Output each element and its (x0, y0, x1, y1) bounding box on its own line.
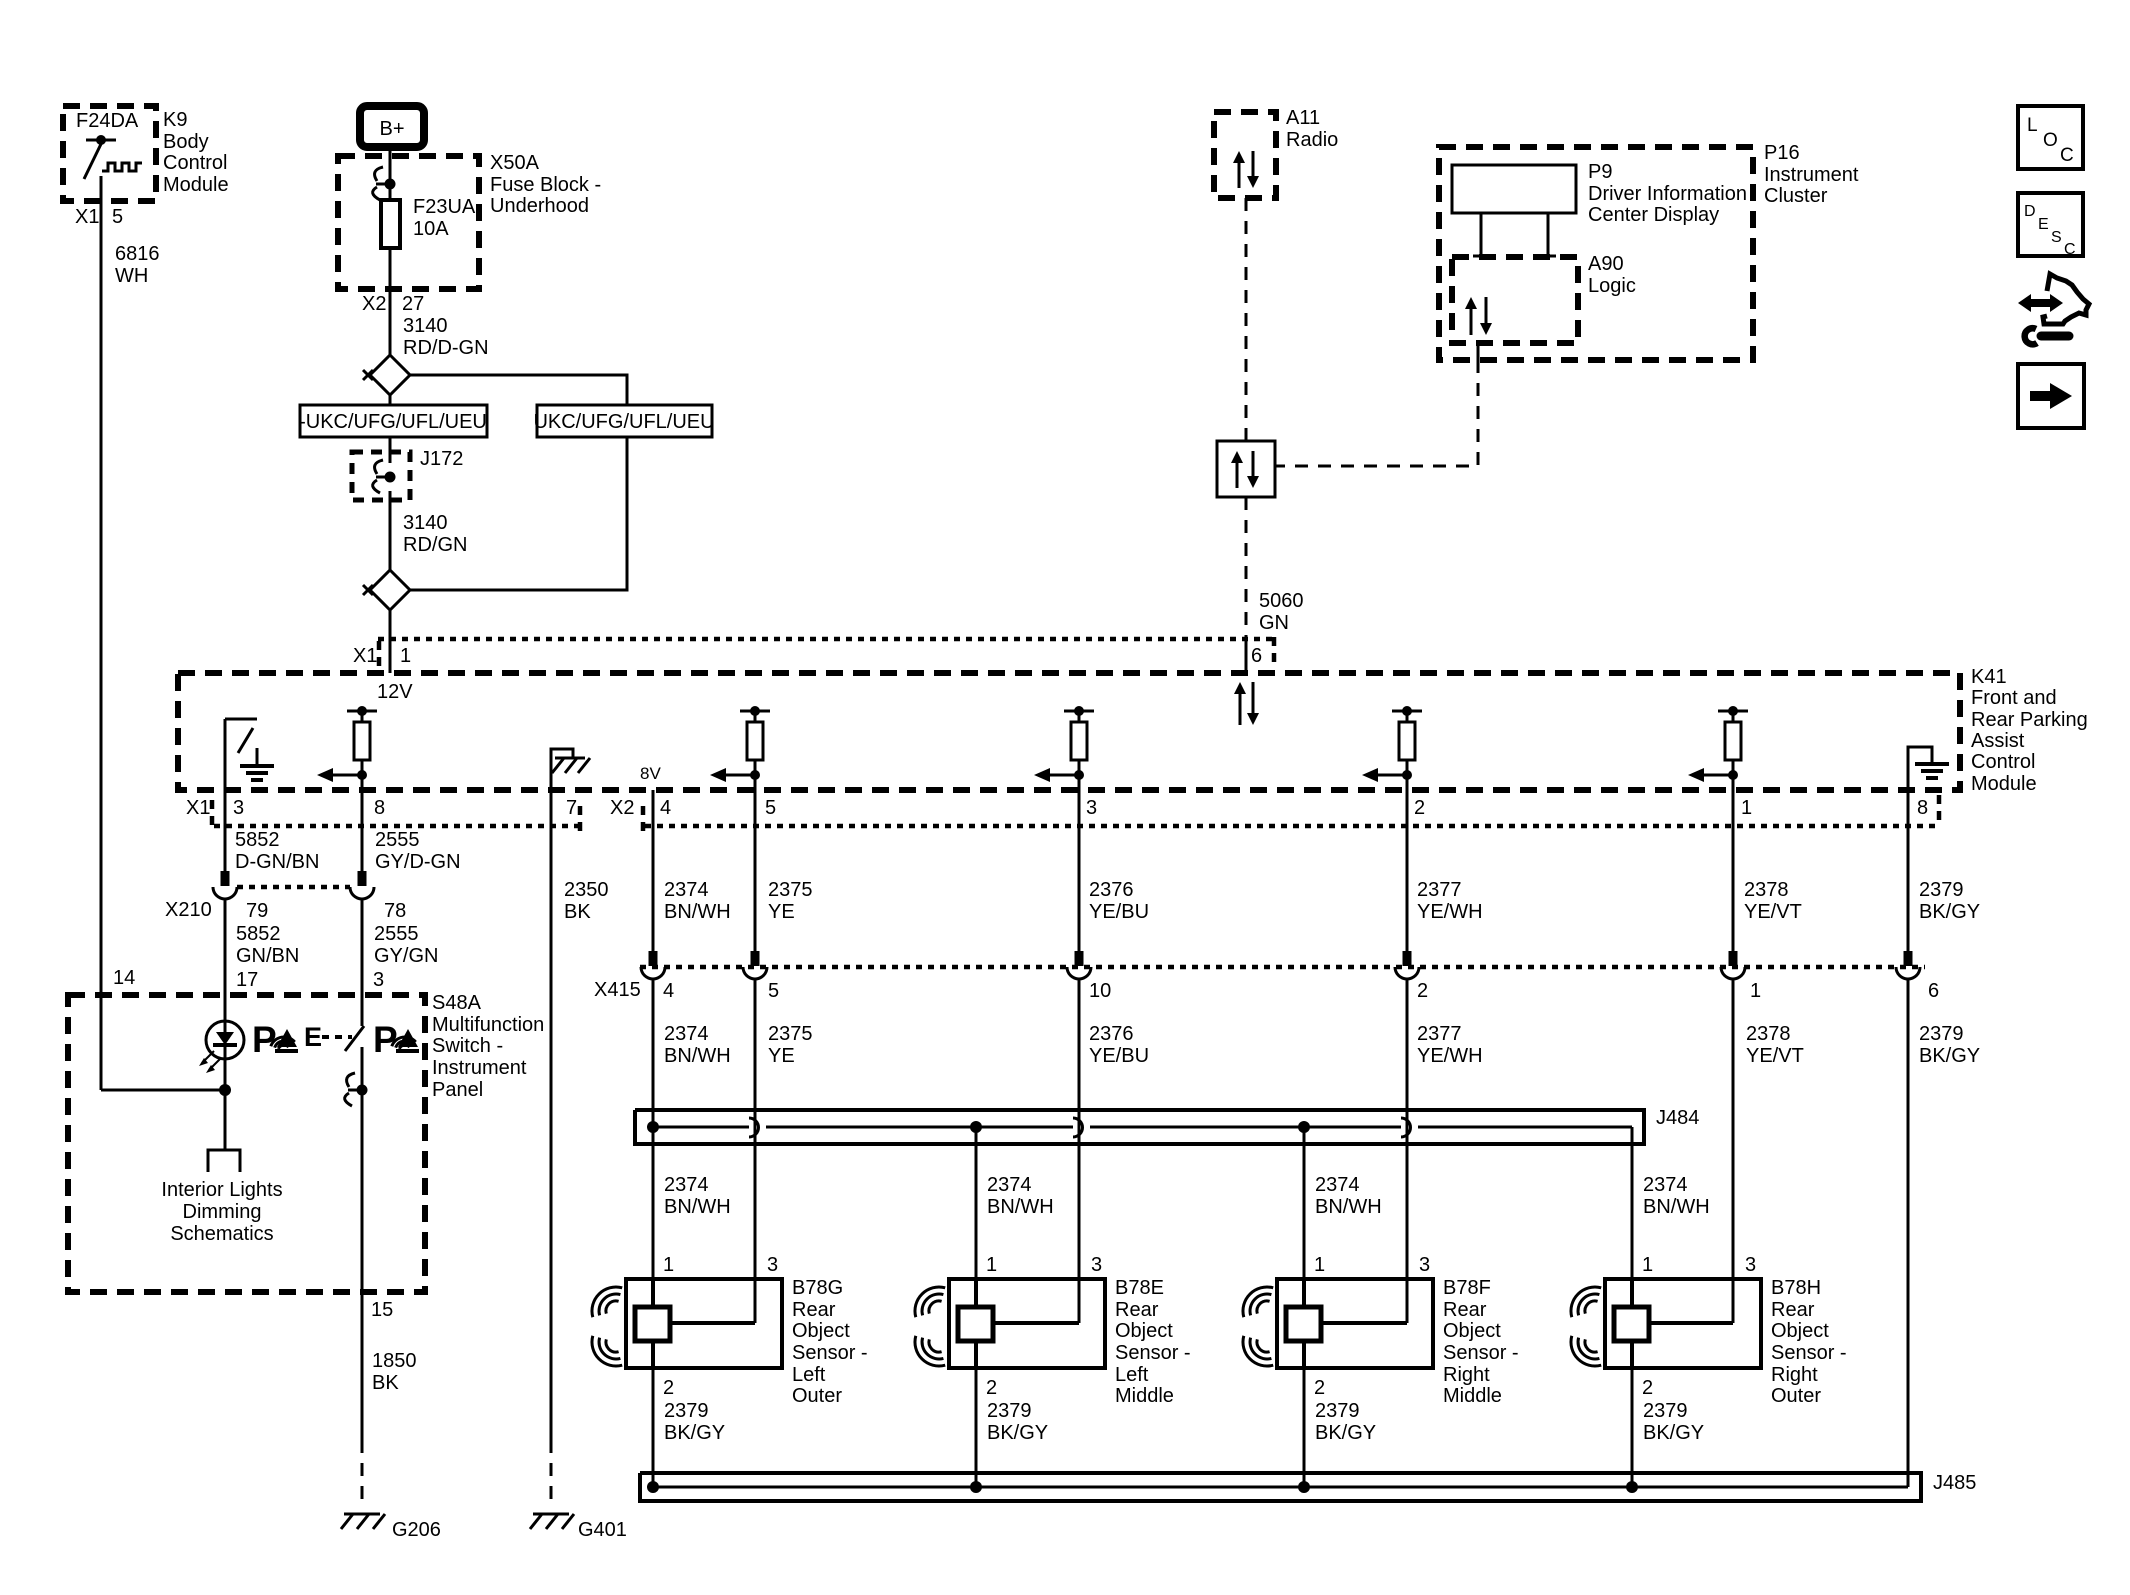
svg-text:6: 6 (1928, 980, 1939, 1002)
relay module K9 Body Control Module (dashed box) (63, 106, 156, 201)
wire J484 right end to B78H pin 1 (1631, 1127, 1634, 1279)
icon LOC button (2018, 106, 2083, 169)
connector X210 pin 78 (350, 871, 406, 922)
svg-text:15: 15 (371, 1299, 393, 1321)
connector X2 of K41 (bottom row) (610, 795, 1939, 832)
svg-text:Center Display: Center Display (1588, 204, 1719, 226)
svg-text:2378: 2378 (1744, 879, 1789, 901)
svg-text:Schematics: Schematics (170, 1223, 273, 1245)
svg-text:X210: X210 (165, 899, 212, 921)
svg-text:Right: Right (1771, 1364, 1818, 1386)
svg-text:5852: 5852 (236, 923, 281, 945)
resistor with tap inside K41 above pin X2-5 (710, 706, 770, 790)
svg-text:X2: X2 (362, 293, 386, 315)
svg-text:B78G: B78G (792, 1277, 843, 1299)
wire label 2374 BN/WH at B78F (1315, 1174, 1382, 1218)
wire 2376 YE/BU X415-10 to B78E pin 3 (1079, 979, 1149, 1323)
svg-text:Object: Object (1115, 1320, 1173, 1342)
LED emission arrows (199, 1051, 221, 1073)
wire 2375 YE from K41 X2-5 to X415-5 (755, 790, 813, 951)
svg-text:X50A: X50A (490, 152, 540, 174)
icon wrench (2025, 328, 2069, 344)
wire 5852 GN/BN X210-79 to S48A pin 17 (225, 899, 299, 1022)
connector X415 pin 2 (1395, 951, 1428, 1002)
splice diamond S2 (363, 570, 410, 610)
svg-text:YE/WH: YE/WH (1417, 901, 1483, 923)
wire 2555 GY/GN X210-78 to S48A pin 3 (362, 899, 438, 1026)
svg-text:B78H: B78H (1771, 1277, 1821, 1299)
svg-text:Instrument: Instrument (1764, 164, 1859, 186)
svg-text:Object: Object (1771, 1320, 1829, 1342)
svg-text:P: P (373, 1019, 398, 1060)
svg-text:2376: 2376 (1089, 1023, 1134, 1045)
wire 2374 BN/WH from K41 X2-4 to X415-4 (653, 790, 731, 951)
svg-text:X1: X1 (353, 645, 377, 667)
svg-text:2: 2 (663, 1377, 674, 1399)
clip connector below switch (345, 1047, 368, 1292)
svg-text:A90: A90 (1588, 253, 1624, 275)
svg-text:1: 1 (986, 1254, 997, 1276)
svg-text:12V: 12V (377, 681, 413, 703)
svg-text:2379: 2379 (1643, 1400, 1688, 1422)
svg-text:YE/WH: YE/WH (1417, 1045, 1483, 1067)
svg-text:2374: 2374 (664, 1174, 709, 1196)
svg-text:5: 5 (765, 797, 776, 819)
wire 6816 WH from K9 X1-5 down to S48A junction (101, 176, 160, 1090)
svg-text:D-GN/BN: D-GN/BN (235, 851, 319, 873)
svg-text:2: 2 (1314, 1377, 1325, 1399)
ground G401 (530, 1514, 627, 1541)
svg-text:Interior Lights: Interior Lights (161, 1179, 282, 1201)
svg-text:C: C (2064, 241, 2076, 258)
svg-text:1: 1 (400, 645, 411, 667)
wire 2374 BN/WH X415-4 to J484 (653, 979, 731, 1127)
clip connector inside X50A (373, 167, 396, 200)
svg-text:2377: 2377 (1417, 1023, 1462, 1045)
svg-text:E: E (2038, 216, 2049, 233)
svg-text:Left: Left (792, 1364, 826, 1386)
fuse block X50A (dashed box) (338, 152, 601, 289)
wire 2350 BK from K41 X1-7 toward G401 (551, 790, 609, 1440)
junction J484 to sensor feed 1 (647, 1121, 659, 1133)
svg-text:F24DA: F24DA (76, 110, 139, 132)
wire 2379 BK/GY B78G pin 2 to J485 (653, 1368, 725, 1487)
option box -UKC/UFG/UFL/UEU (299, 405, 487, 437)
wire 2374 BN/WH J484 to B78G pin 1 (652, 1127, 655, 1279)
switch actuator label E with dashed link (304, 1022, 352, 1052)
svg-text:GN: GN (1259, 612, 1289, 634)
svg-text:Sensor -: Sensor - (1771, 1342, 1847, 1364)
svg-text:2: 2 (1642, 1377, 1653, 1399)
svg-text:10A: 10A (413, 218, 449, 240)
svg-text:27: 27 (402, 293, 424, 315)
wire 2375 YE X415-5 to B78G pin 3 (755, 979, 813, 1323)
resistor with tap inside K41 above pin X2-1 (1688, 706, 1748, 790)
connector X210 pin 79 (213, 871, 268, 922)
svg-text:6816: 6816 (115, 243, 160, 265)
svg-text:8: 8 (374, 797, 385, 819)
svg-text:Rear: Rear (1771, 1299, 1815, 1321)
svg-text:YE/BU: YE/BU (1089, 1045, 1149, 1067)
svg-text:YE/VT: YE/VT (1746, 1045, 1804, 1067)
svg-text:2379: 2379 (1919, 879, 1964, 901)
svg-text:Rear: Rear (1115, 1299, 1159, 1321)
icon car data double arrow (2018, 294, 2063, 312)
connector X1 of K41 (top, dotted row) (378, 637, 1274, 642)
connector X415 pin 5 (743, 951, 779, 1002)
svg-text:Underhood: Underhood (490, 195, 589, 217)
svg-text:2374: 2374 (1643, 1174, 1688, 1196)
svg-text:BK/GY: BK/GY (987, 1422, 1048, 1444)
svg-text:X415: X415 (594, 979, 641, 1001)
sound waves of B78F (1243, 1287, 1273, 1366)
switch to ground inside K41 (illumination driver) (225, 719, 274, 790)
wire 5060 GN serial data to K41 X1-6 (dashed) (1246, 497, 1304, 673)
connector X415 row (594, 967, 1925, 1001)
svg-text:BK/GY: BK/GY (1919, 1045, 1980, 1067)
bus J485 middle conductor (653, 1486, 1908, 1489)
connector X415 pin 4 (641, 951, 674, 1002)
svg-text:5852: 5852 (235, 829, 280, 851)
ultrasonic sensor B78F Rear Object Sensor (1277, 1277, 1519, 1407)
svg-text:X1: X1 (186, 797, 210, 819)
svg-text:D: D (2024, 203, 2036, 220)
svg-text:Control: Control (163, 152, 227, 174)
wire label 2374 BN/WH at B78H (1643, 1174, 1710, 1218)
svg-text:YE/BU: YE/BU (1089, 901, 1149, 923)
connector X415 pin 1 (1721, 951, 1761, 1002)
svg-text:14: 14 (113, 967, 135, 989)
svg-text:2378: 2378 (1746, 1023, 1791, 1045)
wire UKC box right branch down (410, 437, 627, 590)
svg-text:8: 8 (1917, 797, 1928, 819)
junction J485 at B78E (970, 1481, 982, 1493)
svg-text:1850: 1850 (372, 1350, 417, 1372)
svg-text:Object: Object (1443, 1320, 1501, 1342)
svg-text:Sensor -: Sensor - (792, 1342, 868, 1364)
pin 6 of K41 X1 (1251, 637, 1274, 667)
wire 2376 YE/BU from K41 X2-3 to X415-10 (1079, 790, 1149, 951)
svg-text:Right: Right (1443, 1364, 1490, 1386)
wire 3140 RD/GN J172 to splice S2 (390, 491, 467, 570)
svg-text:G401: G401 (578, 1519, 627, 1541)
wire 2555 GY/D-GN from K41 X1-8 to X210-78 (362, 790, 461, 873)
svg-text:5: 5 (768, 980, 779, 1002)
wire branch right from splice to UKC option (410, 375, 627, 405)
svg-text:2350: 2350 (564, 879, 609, 901)
svg-text:Multifunction: Multifunction (432, 1014, 544, 1036)
wire 2378 YE/VT X415-1 to B78H pin 3 (1733, 979, 1804, 1323)
junction of 6816 WH with LED branch (101, 1084, 231, 1096)
sound waves of B78G (592, 1287, 622, 1366)
wire 2379 BK/GY B78F pin 2 to J485 (1304, 1368, 1376, 1487)
svg-text:2379: 2379 (1315, 1400, 1360, 1422)
svg-text:10: 10 (1089, 980, 1111, 1002)
twisted pair bus J484 (635, 1107, 1699, 1144)
wire 2374 BN/WH J484 to B78F pin 1 (1303, 1127, 1306, 1279)
svg-text:5060: 5060 (1259, 590, 1304, 612)
svg-text:7: 7 (566, 797, 577, 819)
svg-text:Body: Body (163, 131, 209, 153)
wire B+ to fuse (389, 149, 392, 200)
resistor with tap inside K41 above pin X1-8 (317, 706, 377, 790)
svg-text:3: 3 (373, 969, 384, 991)
svg-text:2555: 2555 (374, 923, 419, 945)
connector X210 row (165, 887, 350, 921)
junction J485 at B78G (647, 1481, 659, 1493)
svg-text:B78E: B78E (1115, 1277, 1164, 1299)
svg-text:P9: P9 (1588, 161, 1612, 183)
off-page bracket to Interior Lights Dimming Schematics (161, 1150, 282, 1245)
twisted pair bus J485 (640, 1472, 1976, 1501)
svg-text:3: 3 (233, 797, 244, 819)
module K41 Front and Rear Parking Assist Control Module (dashed box) (178, 666, 2088, 795)
ground hook inside K41 at X1-7 (551, 749, 590, 790)
svg-text:J484: J484 (1656, 1107, 1699, 1129)
svg-text:BK/GY: BK/GY (1315, 1422, 1376, 1444)
serial data arrows inside A11 (1233, 151, 1259, 188)
display P9 Driver Information Center Display (1452, 161, 1747, 226)
ground G206 (341, 1514, 441, 1541)
pin X2 27 of X50A (362, 293, 424, 315)
pin X1 5 of K9 (75, 206, 123, 228)
svg-text:2375: 2375 (768, 1023, 813, 1045)
svg-text:RD/GN: RD/GN (403, 534, 467, 556)
svg-text:79: 79 (246, 900, 268, 922)
svg-text:BN/WH: BN/WH (1643, 1196, 1710, 1218)
svg-text:2374: 2374 (1315, 1174, 1360, 1196)
svg-text:BN/WH: BN/WH (987, 1196, 1054, 1218)
svg-text:Rear: Rear (1443, 1299, 1487, 1321)
wire P9 to A90 right (1540, 213, 1556, 257)
svg-text:GN/BN: GN/BN (236, 945, 299, 967)
svg-text:BK/GY: BK/GY (664, 1422, 725, 1444)
svg-text:BK/GY: BK/GY (1643, 1422, 1704, 1444)
svg-text:3: 3 (767, 1254, 778, 1276)
svg-text:Control: Control (1971, 751, 2035, 773)
wire 2378 YE/VT from K41 X2-1 to X415-1 (1733, 790, 1802, 951)
wire serial data A11 to splice box (dashed) (1245, 198, 1248, 441)
svg-text:UKC/UFG/UFL/UEU: UKC/UFG/UFL/UEU (533, 411, 714, 433)
junction J485 at B78F (1298, 1481, 1310, 1493)
svg-text:BN/WH: BN/WH (664, 1196, 731, 1218)
svg-text:1: 1 (1750, 980, 1761, 1002)
wire 2379 BK/GY B78H pin 2 to J485 (1632, 1368, 1704, 1487)
svg-text:5: 5 (112, 206, 123, 228)
ultrasonic sensor B78H Rear Object Sensor (1605, 1277, 1847, 1407)
svg-text:Logic: Logic (1588, 275, 1636, 297)
svg-text:B+: B+ (379, 118, 404, 140)
svg-text:1: 1 (1642, 1254, 1653, 1276)
svg-text:GY/GN: GY/GN (374, 945, 438, 967)
svg-text:17: 17 (236, 969, 258, 991)
wire P9 to A90 left (1473, 213, 1489, 257)
power symbol B+ (360, 106, 424, 147)
junction J485 at B78H (1626, 1481, 1638, 1493)
svg-text:Front and: Front and (1971, 687, 2057, 709)
wire 2377 YE/WH X415-2 to B78F pin 3 (1407, 979, 1483, 1323)
svg-text:Middle: Middle (1115, 1385, 1174, 1407)
resistor with tap inside K41 above pin X2-2 (1362, 706, 1422, 790)
wire LED to junction (224, 1059, 227, 1150)
svg-text:Sensor -: Sensor - (1443, 1342, 1519, 1364)
svg-text:2: 2 (986, 1377, 997, 1399)
svg-text:78: 78 (384, 900, 406, 922)
svg-text:WH: WH (115, 265, 148, 287)
switch module S48A Multifunction Switch - Instrument Panel (dashed box) (68, 992, 544, 1292)
svg-text:2374: 2374 (664, 1023, 709, 1045)
svg-text:G206: G206 (392, 1519, 441, 1541)
sound waves of B78E (915, 1287, 945, 1366)
svg-text:S: S (2051, 229, 2062, 246)
svg-text:Cluster: Cluster (1764, 185, 1828, 207)
wire 5852 D-GN/BN from K41 X1-3 to X210-79 (225, 790, 319, 873)
svg-text:X2: X2 (610, 797, 634, 819)
wire serial data A90 down and left (dashed) (1275, 343, 1478, 466)
svg-text:3: 3 (1086, 797, 1097, 819)
connector X1 of K41 (bottom row) (186, 797, 580, 832)
svg-text:YE/VT: YE/VT (1744, 901, 1802, 923)
ultrasonic sensor B78E Rear Object Sensor (949, 1277, 1191, 1407)
svg-text:RD/D-GN: RD/D-GN (403, 337, 489, 359)
wire 2379 BK/GY X415-6 to J485 (1908, 979, 1980, 1487)
module A11 Radio (dashed box) (1214, 107, 1338, 198)
svg-text:BN/WH: BN/WH (1315, 1196, 1382, 1218)
svg-text:K9: K9 (163, 109, 187, 131)
connector J172 (dashed box with clip) (352, 448, 463, 500)
icon next-page arrow button (2018, 364, 2084, 428)
svg-text:BK/GY: BK/GY (1919, 901, 1980, 923)
svg-text:2379: 2379 (987, 1400, 1032, 1422)
svg-text:4: 4 (660, 797, 671, 819)
junction J484 to sensor feed 2 (970, 1121, 982, 1133)
connector X415 pin 10 (1067, 951, 1111, 1002)
svg-text:BK: BK (564, 901, 591, 923)
svg-text:-UKC/UFG/UFL/UEU: -UKC/UFG/UFL/UEU (299, 411, 487, 433)
svg-text:O: O (2043, 130, 2058, 151)
sound waves of B78H (1571, 1287, 1601, 1366)
svg-text:1: 1 (1741, 797, 1752, 819)
svg-text:2379: 2379 (664, 1400, 709, 1422)
wire fuse output through X50A bottom (389, 248, 392, 355)
wire 2379 BK/GY B78E pin 2 to J485 (976, 1368, 1048, 1487)
svg-text:Left: Left (1115, 1364, 1149, 1386)
svg-text:1: 1 (1314, 1254, 1325, 1276)
svg-text:BK: BK (372, 1372, 399, 1394)
svg-text:Module: Module (1971, 773, 2037, 795)
svg-text:Dimming: Dimming (183, 1201, 262, 1223)
resistor with tap inside K41 above pin X2-3 (1034, 706, 1094, 790)
svg-text:BN/WH: BN/WH (664, 1045, 731, 1067)
svg-text:YE: YE (768, 901, 795, 923)
svg-text:Fuse Block -: Fuse Block - (490, 174, 601, 196)
svg-text:3140: 3140 (403, 315, 448, 337)
wire 1850 BK S48A-15 to G206 (362, 1292, 417, 1508)
svg-text:3: 3 (1745, 1254, 1756, 1276)
svg-text:2: 2 (1414, 797, 1425, 819)
wire 2350 BK dashed tail to G401 (550, 1440, 553, 1508)
svg-text:Module: Module (163, 174, 229, 196)
svg-text:GY/D-GN: GY/D-GN (375, 851, 461, 873)
wire label 2374 BN/WH at B78G (664, 1174, 731, 1218)
svg-text:J485: J485 (1933, 1472, 1976, 1494)
svg-text:Instrument: Instrument (432, 1057, 527, 1079)
wire 12V feed into K41 X1-1 (389, 610, 392, 673)
park assist icon right (373, 1019, 419, 1060)
serial data arrows inside A90 (1465, 297, 1492, 335)
svg-text:E: E (304, 1022, 322, 1052)
park assist icon left (P with waves and obstacle) (252, 1019, 298, 1060)
svg-text:Switch -: Switch - (432, 1035, 503, 1057)
label K9 designator text (163, 109, 229, 196)
svg-text:Radio: Radio (1286, 129, 1338, 151)
svg-text:J172: J172 (420, 448, 463, 470)
svg-text:6: 6 (1251, 645, 1262, 667)
svg-text:2379: 2379 (1919, 1023, 1964, 1045)
svg-text:8V: 8V (640, 764, 661, 783)
serial data splice box (1217, 441, 1275, 497)
wire label 2374 BN/WH at B78E (987, 1174, 1054, 1218)
wire 2374 BN/WH J484 to B78E pin 1 (975, 1127, 978, 1279)
svg-text:Driver Information: Driver Information (1588, 183, 1747, 205)
svg-text:Rear Parking: Rear Parking (1971, 709, 2088, 731)
svg-text:B78F: B78F (1443, 1277, 1491, 1299)
bus J484 middle conductor with hops (653, 1118, 1632, 1137)
svg-text:4: 4 (663, 980, 674, 1002)
serial data arrows inside K41 at X1-6 (1234, 682, 1259, 725)
splice diamond S1 (option split) (363, 355, 410, 395)
earth ground inside K41 at X2-8 (1908, 747, 1949, 790)
svg-text:K41: K41 (1971, 666, 2007, 688)
fuse F23UA 10A (381, 196, 476, 248)
svg-text:Middle: Middle (1443, 1385, 1502, 1407)
svg-text:Sensor -: Sensor - (1115, 1342, 1191, 1364)
svg-text:2375: 2375 (768, 879, 813, 901)
svg-text:P: P (252, 1019, 277, 1060)
svg-text:Rear: Rear (792, 1299, 836, 1321)
svg-text:S48A: S48A (432, 992, 482, 1014)
svg-text:1: 1 (663, 1254, 674, 1276)
svg-text:3: 3 (1091, 1254, 1102, 1276)
svg-text:YE: YE (768, 1045, 795, 1067)
svg-text:P16: P16 (1764, 142, 1800, 164)
svg-text:Object: Object (792, 1320, 850, 1342)
ultrasonic sensor B78G Rear Object Sensor (626, 1277, 868, 1407)
module P16 Instrument Cluster (dashed box) (1439, 142, 1859, 360)
wire -UKC box to J172 (389, 437, 392, 463)
junction J484 to sensor feed 3 (1298, 1121, 1310, 1133)
svg-text:X1: X1 (75, 206, 99, 228)
switch blade inside S48A (345, 1026, 364, 1051)
svg-text:3: 3 (1419, 1254, 1430, 1276)
icon car silhouette (2043, 274, 2089, 324)
svg-text:BN/WH: BN/WH (664, 901, 731, 923)
svg-text:2374: 2374 (664, 879, 709, 901)
svg-text:Panel: Panel (432, 1079, 483, 1101)
wire 2379 BK/GY from K41 X2-8 to X415-6 (1908, 790, 1980, 951)
LED indicator inside S48A (206, 1021, 244, 1059)
connector X415 pin 6 (1896, 951, 1939, 1002)
svg-text:2: 2 (1417, 980, 1428, 1002)
svg-text:2374: 2374 (987, 1174, 1032, 1196)
svg-text:Assist: Assist (1971, 730, 2025, 752)
svg-text:C: C (2060, 145, 2074, 166)
option box UKC/UFG/UFL/UEU (533, 405, 714, 437)
svg-text:2376: 2376 (1089, 879, 1134, 901)
svg-text:3140: 3140 (403, 512, 448, 534)
wire 3140 RD/D-GN label (403, 315, 489, 359)
svg-text:Outer: Outer (1771, 1385, 1821, 1407)
